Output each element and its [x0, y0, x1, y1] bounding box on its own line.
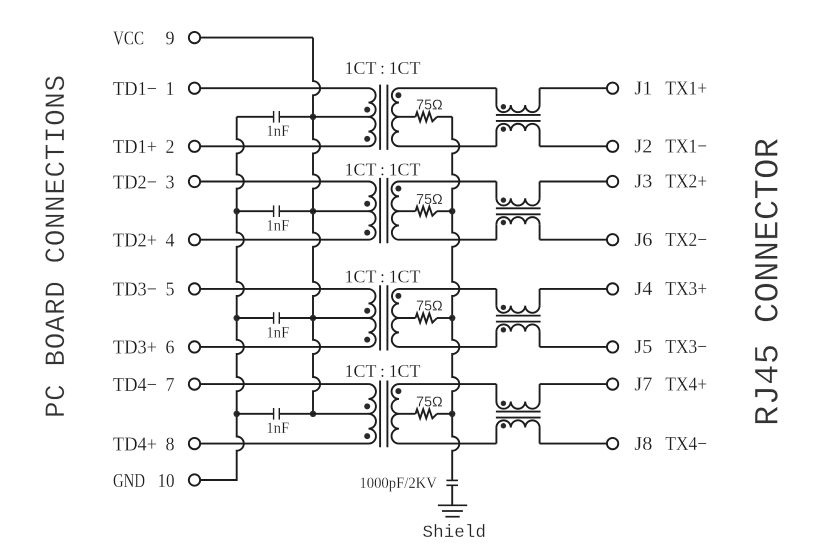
- choke L2 top winding: [496, 182, 539, 206]
- transformer T3 secondary winding upper half: [392, 289, 399, 318]
- choke L1 top winding: [496, 88, 539, 112]
- pin label TD1+ 2: [113, 136, 175, 158]
- capacitor C4 1nF: [274, 408, 280, 420]
- transformer T3 core: [380, 285, 387, 350]
- wire C4 left lead: [237, 413, 274, 415]
- label C4 value 1nF: [266, 420, 289, 437]
- wire R2 to shield rail junction: [437, 210, 452, 212]
- svg-text:RJ45 CONNECTOR: RJ45 CONNECTOR: [751, 138, 789, 426]
- svg-text:7: 7: [166, 374, 175, 396]
- transformer T2 core: [380, 178, 387, 243]
- wire C3 left lead: [237, 317, 274, 319]
- svg-text:VCC: VCC: [113, 27, 144, 49]
- transformer T2 primary winding lower half: [369, 211, 376, 240]
- svg-text:3: 3: [166, 171, 175, 193]
- wire choke L4 to J pin top: [540, 383, 607, 385]
- svg-text:PC BOARD CONNECTIONS: PC BOARD CONNECTIONS: [42, 75, 73, 418]
- svg-text:9: 9: [166, 27, 175, 49]
- svg-text:2: 2: [166, 136, 175, 158]
- choke L4 top winding: [496, 384, 539, 409]
- VCC rail (net VCC, vertical): [313, 38, 320, 414]
- pin terminal J8: [607, 438, 618, 449]
- transformer T4 primary winding upper half: [369, 384, 376, 414]
- pin label J6 TX2&#8722;: [634, 229, 707, 251]
- wire TD2+ to transformer T2 primary bottom: [201, 239, 369, 241]
- pin terminal TD1- (pin 1): [189, 83, 200, 94]
- pin terminal J4: [607, 283, 618, 294]
- wire T2 secondary center tap to R2: [399, 210, 416, 212]
- svg-text:1nF: 1nF: [266, 420, 289, 437]
- label C3 value 1nF: [266, 324, 289, 341]
- polarity dot L4 bottom: [501, 423, 506, 428]
- polarity dot L2 top: [501, 197, 506, 202]
- svg-text:75Ω: 75Ω: [416, 394, 443, 411]
- svg-text:TD4−: TD4−: [113, 374, 157, 396]
- pin terminal TD2+ (pin 4): [189, 234, 200, 245]
- svg-text:1000pF/2KV: 1000pF/2KV: [359, 475, 437, 492]
- resistor R2 75 ohm: [416, 207, 438, 216]
- svg-text:TX3−: TX3−: [665, 336, 707, 358]
- transformer T3 primary winding lower half: [369, 318, 376, 347]
- wire TD1- to transformer T1 primary top: [201, 87, 369, 89]
- wire C1 right lead to T1 primary center tap: [279, 116, 368, 118]
- svg-text:4: 4: [166, 230, 175, 252]
- svg-text:TX2−: TX2−: [665, 229, 707, 251]
- pin label TD2- 3: [113, 171, 175, 193]
- label C1 value 1nF: [266, 123, 289, 140]
- pin terminal J5: [607, 341, 618, 352]
- wire C3 right lead to T3 primary center tap: [279, 317, 368, 319]
- junction shield rail / R2 row: [449, 208, 455, 214]
- wire VCC pin 9 to VCC rail: [201, 37, 313, 39]
- resistor R4 75 ohm: [416, 409, 438, 418]
- polarity dot T3 primary upper: [364, 308, 370, 314]
- transformer T4 secondary winding upper half: [392, 384, 399, 414]
- svg-text:TX1+: TX1+: [665, 77, 707, 99]
- svg-text:75Ω: 75Ω: [416, 191, 443, 208]
- wire T1 secondary center tap to R1: [399, 116, 416, 118]
- wire C1 left lead: [237, 116, 274, 118]
- svg-text:TD3−: TD3−: [113, 279, 157, 301]
- wire T3 secondary top to choke L3: [399, 288, 496, 290]
- polarity dot L4 top: [501, 401, 506, 406]
- junction ground rail / C4 row: [234, 411, 240, 417]
- choke L2 core: [496, 208, 541, 214]
- pin terminal J6: [607, 234, 618, 245]
- pin terminal TD3+ (pin 6): [189, 341, 200, 352]
- svg-text:1CT : 1CT: 1CT : 1CT: [345, 160, 421, 180]
- label R4 value 75&#937;: [416, 394, 443, 411]
- svg-text:TX2+: TX2+: [665, 171, 707, 193]
- pin label TD4- 7: [113, 374, 175, 396]
- capacitor C3 1nF: [274, 312, 280, 324]
- svg-text:TX1−: TX1−: [665, 136, 707, 158]
- svg-text:TX4−: TX4−: [665, 433, 707, 455]
- capacitor C9 1000pF/2KV: [446, 480, 458, 485]
- pin terminal J1: [607, 83, 618, 94]
- wire C2 left lead: [237, 210, 274, 212]
- svg-text:Shield: Shield: [423, 523, 487, 543]
- wire TD3+ to transformer T3 primary bottom: [201, 346, 369, 348]
- transformer T3 secondary winding lower half: [392, 318, 399, 347]
- polarity dot T1 primary upper: [364, 107, 370, 113]
- svg-text:1nF: 1nF: [266, 324, 289, 341]
- svg-text:TD2−: TD2−: [113, 171, 157, 193]
- svg-text:1nF: 1nF: [266, 218, 289, 235]
- junction VCC rail / T3 center tap row: [310, 315, 316, 321]
- wire R4 to shield rail junction: [437, 413, 452, 415]
- pin label J2 TX1&#8722;: [634, 136, 707, 158]
- svg-text:75Ω: 75Ω: [416, 298, 443, 315]
- pin terminal TD4- (pin 7): [189, 378, 200, 389]
- polarity dot L1 top: [501, 104, 506, 109]
- wire T3 secondary bottom to choke L3: [399, 346, 496, 348]
- svg-text:J8: J8: [634, 433, 652, 455]
- capacitor C1 1nF: [274, 111, 280, 123]
- polarity dot L3 bottom: [501, 327, 506, 332]
- wire choke L2 to J pin bottom: [540, 239, 607, 241]
- junction shield rail / R4 row: [449, 411, 455, 417]
- resistor R1 75 ohm: [416, 112, 438, 121]
- svg-text:8: 8: [166, 433, 175, 455]
- junction VCC rail / T2 center tap row: [310, 208, 316, 214]
- svg-text:TX4+: TX4+: [665, 373, 707, 395]
- junction VCC rail / T1 center tap row: [310, 114, 316, 120]
- junction ground rail / C3 row: [234, 315, 240, 321]
- pin label TD3+ 6: [113, 337, 175, 359]
- polarity dot T1 secondary: [395, 92, 401, 98]
- choke L3 top winding: [496, 289, 539, 313]
- polarity dot T2 primary lower: [364, 230, 370, 236]
- pin label TD1- 1: [113, 78, 175, 100]
- pin label TD3- 5: [113, 279, 175, 301]
- svg-text:TX3+: TX3+: [665, 278, 707, 300]
- pin label J1 TX1+: [634, 77, 707, 99]
- pin label TD2+ 4: [113, 230, 175, 252]
- title right: RJ45 CONNECTOR: [751, 138, 789, 426]
- label R1 value 75&#937;: [416, 97, 443, 114]
- wire choke L2 to J pin top: [540, 181, 607, 183]
- label R3 value 75&#937;: [416, 298, 443, 315]
- wire T1 secondary top to choke L1: [399, 87, 496, 89]
- pin terminal TD2- (pin 3): [189, 176, 200, 187]
- polarity dot T3 primary lower: [364, 337, 370, 343]
- svg-text:J5: J5: [634, 336, 652, 358]
- pin terminal J7: [607, 378, 618, 389]
- wire C2 right lead to T2 primary center tap: [279, 210, 368, 212]
- ground rail (net GND, vertical): [237, 117, 244, 480]
- polarity dot T2 secondary: [395, 186, 401, 192]
- polarity dot T4 secondary: [395, 388, 401, 394]
- choke L4 bottom winding: [496, 420, 539, 443]
- svg-text:1CT : 1CT: 1CT : 1CT: [345, 267, 421, 287]
- transformer T2 secondary winding upper half: [392, 182, 399, 212]
- transformer T1 core: [380, 85, 387, 150]
- choke L1 bottom winding: [496, 124, 539, 147]
- pin terminal J2: [607, 141, 618, 152]
- shield rail (net SHIELD, vertical): [452, 117, 459, 480]
- pin terminal VCC (pin 9): [189, 32, 200, 43]
- svg-text:1CT : 1CT: 1CT : 1CT: [345, 361, 421, 381]
- choke L3 core: [496, 316, 541, 322]
- svg-text:10: 10: [158, 470, 175, 492]
- polarity dot L2 bottom: [501, 220, 506, 225]
- label R2 value 75&#937;: [416, 191, 443, 208]
- pin label TD4+ 8: [113, 433, 175, 455]
- polarity dot T4 primary upper: [364, 403, 370, 409]
- polarity dot T1 primary lower: [364, 136, 370, 142]
- transformer T1 secondary winding lower half: [392, 117, 399, 147]
- transformer T1 secondary winding upper half: [392, 88, 399, 117]
- transformer T2 secondary winding lower half: [392, 211, 399, 240]
- svg-text:J4: J4: [634, 278, 652, 300]
- choke L2 bottom winding: [496, 217, 539, 240]
- wire TD1+ to transformer T1 primary bottom: [201, 145, 369, 147]
- wire choke L3 to J pin top: [540, 288, 607, 290]
- pin label VCC 9: [113, 27, 175, 49]
- resistor R3 75 ohm: [416, 313, 438, 322]
- svg-text:TD4+: TD4+: [113, 433, 157, 455]
- label C2 value 1nF: [266, 218, 289, 235]
- wire choke L3 to J pin bottom: [540, 346, 607, 348]
- svg-text:GND: GND: [113, 470, 145, 492]
- transformer T4 secondary winding lower half: [392, 414, 399, 444]
- pin terminal TD1+ (pin 2): [189, 141, 200, 152]
- wire C4 right lead to T4 primary center tap: [279, 413, 368, 415]
- transformer T4 core: [380, 381, 387, 448]
- svg-text:J2: J2: [634, 136, 652, 158]
- svg-text:J1: J1: [634, 77, 652, 99]
- wire TD4+ to transformer T4 primary bottom: [201, 443, 369, 445]
- transformer T3 primary winding upper half: [369, 289, 376, 318]
- transformer T2 primary winding upper half: [369, 182, 376, 212]
- svg-text:1CT : 1CT: 1CT : 1CT: [345, 58, 421, 78]
- transformer T1 primary winding upper half: [369, 88, 376, 117]
- pin terminal J3: [607, 176, 618, 187]
- wire C9 to shield ground: [451, 485, 453, 505]
- svg-text:75Ω: 75Ω: [416, 97, 443, 114]
- wire TD4- to transformer T4 primary top: [201, 383, 369, 385]
- pin terminal GND (pin 10): [189, 474, 200, 485]
- svg-text:6: 6: [166, 337, 175, 359]
- wire T3 secondary center tap to R3: [399, 317, 416, 319]
- svg-text:J7: J7: [634, 373, 652, 395]
- label T3 ratio 1CT:1CT: [345, 267, 421, 287]
- pin terminal TD3- (pin 5): [189, 283, 200, 294]
- label C9 value 1000pF/2KV: [359, 475, 437, 492]
- wire T2 secondary top to choke L2: [399, 181, 496, 183]
- pin label J3 TX2+: [634, 171, 707, 193]
- polarity dot L1 bottom: [501, 126, 506, 131]
- polarity dot L3 top: [501, 305, 506, 310]
- wire R1 to shield rail (corner): [437, 116, 452, 118]
- label T4 ratio 1CT:1CT: [345, 361, 421, 381]
- pin label GND 10: [113, 470, 175, 492]
- pin label J8 TX4&#8722;: [634, 433, 707, 455]
- wire choke L1 to J pin top: [540, 87, 607, 89]
- junction ground rail / C2 row: [234, 208, 240, 214]
- capacitor C2 1nF: [274, 205, 280, 217]
- svg-text:1: 1: [166, 78, 175, 100]
- svg-text:J3: J3: [634, 171, 652, 193]
- svg-text:TD3+: TD3+: [113, 337, 157, 359]
- svg-text:TD1−: TD1−: [113, 78, 157, 100]
- choke L4 core: [496, 412, 541, 418]
- wire R3 to shield rail junction: [437, 317, 452, 319]
- pin label J7 TX4+: [634, 373, 707, 395]
- svg-text:1nF: 1nF: [266, 123, 289, 140]
- choke L3 bottom winding: [496, 324, 539, 347]
- wire TD2- to transformer T2 primary top: [201, 181, 369, 183]
- wire choke L1 to J pin bottom: [540, 145, 607, 147]
- pin label J5 TX3&#8722;: [634, 336, 707, 358]
- transformer T4 primary winding lower half: [369, 414, 376, 444]
- svg-text:J6: J6: [634, 229, 652, 251]
- wire GND pin 10 to ground rail: [201, 479, 237, 481]
- svg-text:TD2+: TD2+: [113, 230, 157, 252]
- label T2 ratio 1CT:1CT: [345, 160, 421, 180]
- pin terminal TD4+ (pin 8): [189, 438, 200, 449]
- wire TD3- to transformer T3 primary top: [201, 288, 369, 290]
- title left: PC BOARD CONNECTIONS: [42, 75, 73, 418]
- polarity dot T3 secondary: [395, 293, 401, 299]
- transformer T1 primary winding lower half: [369, 117, 376, 147]
- polarity dot T2 primary upper: [364, 201, 370, 207]
- junction VCC rail / T4 center tap row: [310, 411, 316, 417]
- choke L1 core: [496, 115, 541, 121]
- label T1 ratio 1CT:1CT: [345, 58, 421, 78]
- junction shield rail / R3 row: [449, 315, 455, 321]
- wire choke L4 to J pin bottom: [540, 443, 607, 445]
- wire T4 secondary center tap to R4: [399, 413, 416, 415]
- wire T4 secondary top to choke L4: [399, 383, 496, 385]
- ground symbol (Shield): [438, 505, 467, 516]
- label net Shield: [423, 523, 487, 543]
- wire T2 secondary bottom to choke L2: [399, 239, 496, 241]
- svg-text:5: 5: [166, 279, 175, 301]
- polarity dot T4 primary lower: [364, 433, 370, 439]
- wire T4 secondary bottom to choke L4: [399, 443, 496, 445]
- svg-text:TD1+: TD1+: [113, 136, 157, 158]
- wire T1 secondary bottom to choke L1: [399, 145, 496, 147]
- pin label J4 TX3+: [634, 278, 707, 300]
